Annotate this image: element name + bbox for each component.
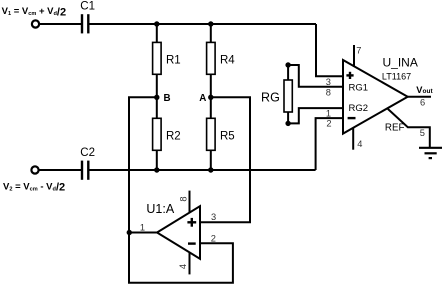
pin 7 stub U_INA [353, 45, 355, 67]
plus symbol U1:A [187, 218, 196, 227]
resistor R5 [207, 97, 216, 170]
node RG top junction [285, 62, 290, 67]
wire V2 terminal to C2 [39, 169, 81, 171]
svg-text:4: 4 [178, 264, 188, 269]
svg-text:5: 5 [420, 128, 425, 138]
svg-text:B: B [164, 93, 171, 104]
node A junction [208, 95, 213, 100]
svg-text:A: A [199, 93, 206, 104]
wire RG bottom to pin 1 RG2 [288, 108, 343, 123]
svg-text:R4: R4 [220, 55, 235, 67]
svg-text:LT1167: LT1167 [382, 71, 411, 81]
svg-text:4: 4 [357, 139, 362, 149]
wire top branch down to pin 3 of U_INA [316, 24, 343, 76]
svg-text:REF: REF [385, 123, 405, 134]
minus symbol U_INA [348, 117, 356, 119]
wire output pin 6 Vout [408, 96, 431, 98]
svg-text:6: 6 [420, 97, 425, 107]
node junction bottom R2 [154, 167, 159, 172]
wire C1 to +IN branch [90, 23, 317, 25]
pin 4 stub U1:A [189, 252, 191, 274]
svg-text:1: 1 [326, 109, 331, 119]
plus symbol U_INA [346, 72, 353, 79]
wire RG top stub [287, 65, 289, 80]
op-amp U_INA triangle [343, 60, 408, 134]
svg-text:3: 3 [326, 77, 331, 87]
svg-text:1: 1 [140, 222, 145, 232]
resistor R2 [153, 97, 162, 170]
node junction top R4 [208, 21, 213, 26]
pin 8 stub U1:A [189, 191, 191, 213]
svg-text:U1:A: U1:A [146, 202, 174, 216]
node B junction [154, 95, 159, 100]
wire U1:A pin 2 feedback loop [129, 233, 233, 283]
minus symbol U1:A [188, 242, 196, 244]
svg-text:7: 7 [356, 46, 361, 56]
wire U1:A output pin 1 [129, 232, 157, 234]
resistor RG [284, 80, 292, 112]
capacitor C2 [82, 161, 88, 180]
svg-text:3: 3 [211, 212, 216, 222]
svg-text:U_INA: U_INA [383, 55, 418, 69]
wire node B to U1:A output [129, 97, 157, 232]
node V2 input terminal [31, 166, 38, 173]
wire C2 to -IN branch [90, 169, 316, 171]
wire node A to U1:A pin 3 [200, 97, 250, 222]
svg-text:C2: C2 [80, 147, 95, 159]
pin 4 stub U_INA [352, 128, 354, 150]
node junction bottom R5 [208, 167, 213, 172]
node RG bottom junction [285, 121, 290, 126]
svg-text:C1: C1 [80, 0, 95, 12]
svg-text:RG2: RG2 [349, 103, 369, 114]
svg-text:8: 8 [326, 87, 331, 97]
wire REF pin 5 to ground [388, 109, 430, 148]
svg-text:RG: RG [261, 91, 280, 105]
svg-text:2: 2 [211, 233, 216, 243]
node U1:A output junction [127, 230, 132, 235]
svg-text:2: 2 [326, 119, 331, 129]
wire RG bottom stub [287, 112, 289, 123]
svg-text:8: 8 [178, 196, 188, 201]
resistor R1 [153, 24, 162, 97]
svg-text:RG1: RG1 [349, 82, 369, 93]
wire V1 terminal to C1 [39, 23, 81, 25]
svg-text:R2: R2 [166, 131, 181, 143]
capacitor C1 [82, 14, 88, 33]
node junction top R1 [154, 21, 159, 26]
ground [419, 148, 442, 158]
wire bottom branch up to pin 2 of U_INA [316, 118, 343, 170]
wire RG top to pin 8 RG1 [288, 65, 343, 87]
resistor R4 [207, 24, 216, 97]
op-amp U1:A triangle [157, 206, 200, 259]
svg-text:R1: R1 [166, 55, 181, 67]
svg-text:R5: R5 [220, 131, 235, 143]
node V1 input terminal [32, 20, 39, 27]
